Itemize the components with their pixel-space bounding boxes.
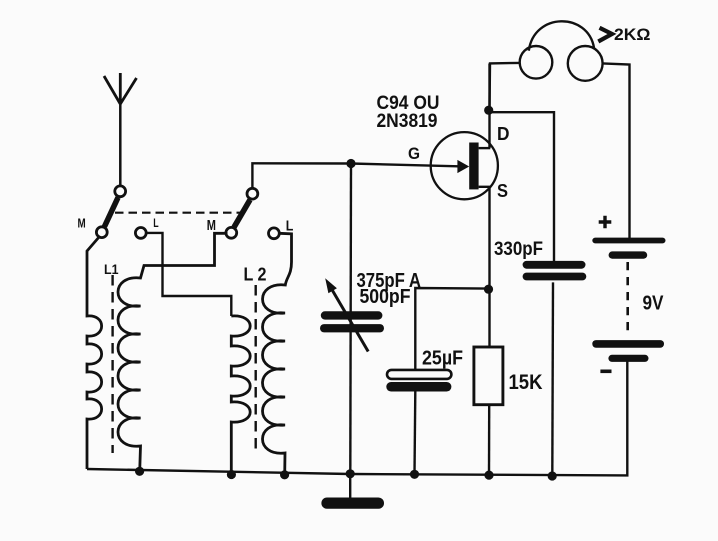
variable capacitor CV stem: [349, 164, 352, 474]
op JFET Q1 circle: [431, 132, 498, 199]
junction: L2 primary to bus: [227, 470, 236, 479]
capacitor 25uF bottom plate: [386, 382, 451, 392]
wire: source vertical: [488, 187, 490, 347]
svg-text:2KΩ: 2KΩ: [614, 25, 651, 44]
svg-text:L: L: [153, 216, 158, 230]
switch S1a contact M: [96, 227, 107, 238]
switch S1a contact L: [135, 228, 146, 239]
switch S1b pole circle: [247, 188, 258, 199]
svg-text:2N3819: 2N3819: [377, 110, 438, 132]
wire: S1b pole up and right to gate node: [252, 163, 458, 188]
wire: right earpiece to battery: [603, 63, 630, 238]
wire: left earpiece to drain node: [490, 63, 520, 110]
capacitor 330pF plates: [523, 261, 587, 281]
svg-text:M: M: [78, 216, 86, 231]
battery B1 cell2 short plate: [608, 355, 648, 362]
JFET Q1 source lead: [479, 186, 491, 188]
JFET Q1 drain lead: [479, 147, 491, 149]
label >2K ohm : chevron: [598, 28, 612, 42]
junction: tuning cap to bus: [346, 469, 355, 478]
JFET Q1 gate arrow: [457, 160, 469, 173]
capacitor 25uF top plate (outline): [387, 370, 451, 379]
wire: 15K to bus: [488, 405, 491, 475]
node: drain junction dot: [484, 106, 493, 115]
variable capacitor CV plates: [320, 311, 384, 332]
coil L2 secondary winding (from contact L of S1b): [263, 233, 292, 474]
svg-text:25µF: 25µF: [422, 348, 463, 370]
node: source junction dot: [484, 285, 493, 294]
headphones right earpiece: [568, 46, 603, 81]
dashed gang line between switch arms: [115, 212, 241, 214]
svg-text:500pF: 500pF: [360, 286, 411, 308]
bottom ground bus wire: [87, 361, 627, 475]
coil L1 core (dashed): [111, 275, 113, 453]
svg-text:G: G: [408, 145, 420, 163]
wire: 25uF to bus: [413, 392, 416, 475]
svg-text:330pF: 330pF: [494, 238, 543, 260]
svg-text:15K: 15K: [509, 371, 543, 394]
svg-text:S: S: [497, 181, 508, 201]
wire: drain node to 330pF: [489, 112, 554, 261]
junction: 25uF to bus: [410, 470, 419, 479]
resistor R1 body: [474, 347, 503, 405]
wire: 330pF to bus: [551, 282, 554, 476]
junction: L1 secondary to bus: [135, 467, 144, 476]
headphones band: [529, 21, 594, 50]
svg-text:9V: 9V: [643, 293, 665, 315]
node: gate junction dot: [346, 159, 355, 168]
svg-text:L: L: [286, 218, 294, 235]
battery B1 cell1 long plate: [592, 238, 665, 244]
svg-text:L1: L1: [104, 261, 119, 277]
svg-text:D: D: [497, 124, 510, 144]
variable capacitor CV arrow: [325, 278, 368, 351]
headphones left earpiece: [520, 46, 553, 79]
coil L2 core (dashed): [254, 285, 256, 454]
svg-text:L 2: L 2: [244, 264, 267, 285]
antenna: [104, 73, 137, 188]
coil L1 secondary winding (to contact M of S1b): [118, 233, 228, 471]
wire: source node to 25uF: [415, 288, 488, 370]
wire: drain vertical: [488, 64, 490, 149]
coil L1 primary winding (from contact M): [87, 237, 102, 470]
battery minus sign: [600, 369, 611, 373]
battery B1 cell2 long plate: [592, 340, 664, 348]
battery plus sign: [599, 216, 612, 229]
switch S1b contact M: [226, 227, 237, 238]
junction: 15K to bus: [484, 471, 493, 480]
junction: 330pF to bus: [548, 471, 557, 480]
JFET Q1 channel bar: [469, 143, 478, 190]
battery dashed middle: [626, 262, 629, 333]
svg-text:M: M: [207, 217, 216, 234]
switch S1b contact L: [269, 228, 280, 239]
switch S1a pole circle: [115, 186, 126, 197]
ground: [321, 474, 384, 509]
junction: L2 secondary to bus: [280, 470, 289, 479]
wire: S1a contact L down to coil L2 primary: [146, 233, 231, 316]
switch S1a arm: [105, 198, 119, 227]
switch S1b arm: [234, 200, 250, 227]
battery B1 cell1 short plate: [609, 251, 648, 258]
coil L2 primary winding: [231, 316, 250, 475]
